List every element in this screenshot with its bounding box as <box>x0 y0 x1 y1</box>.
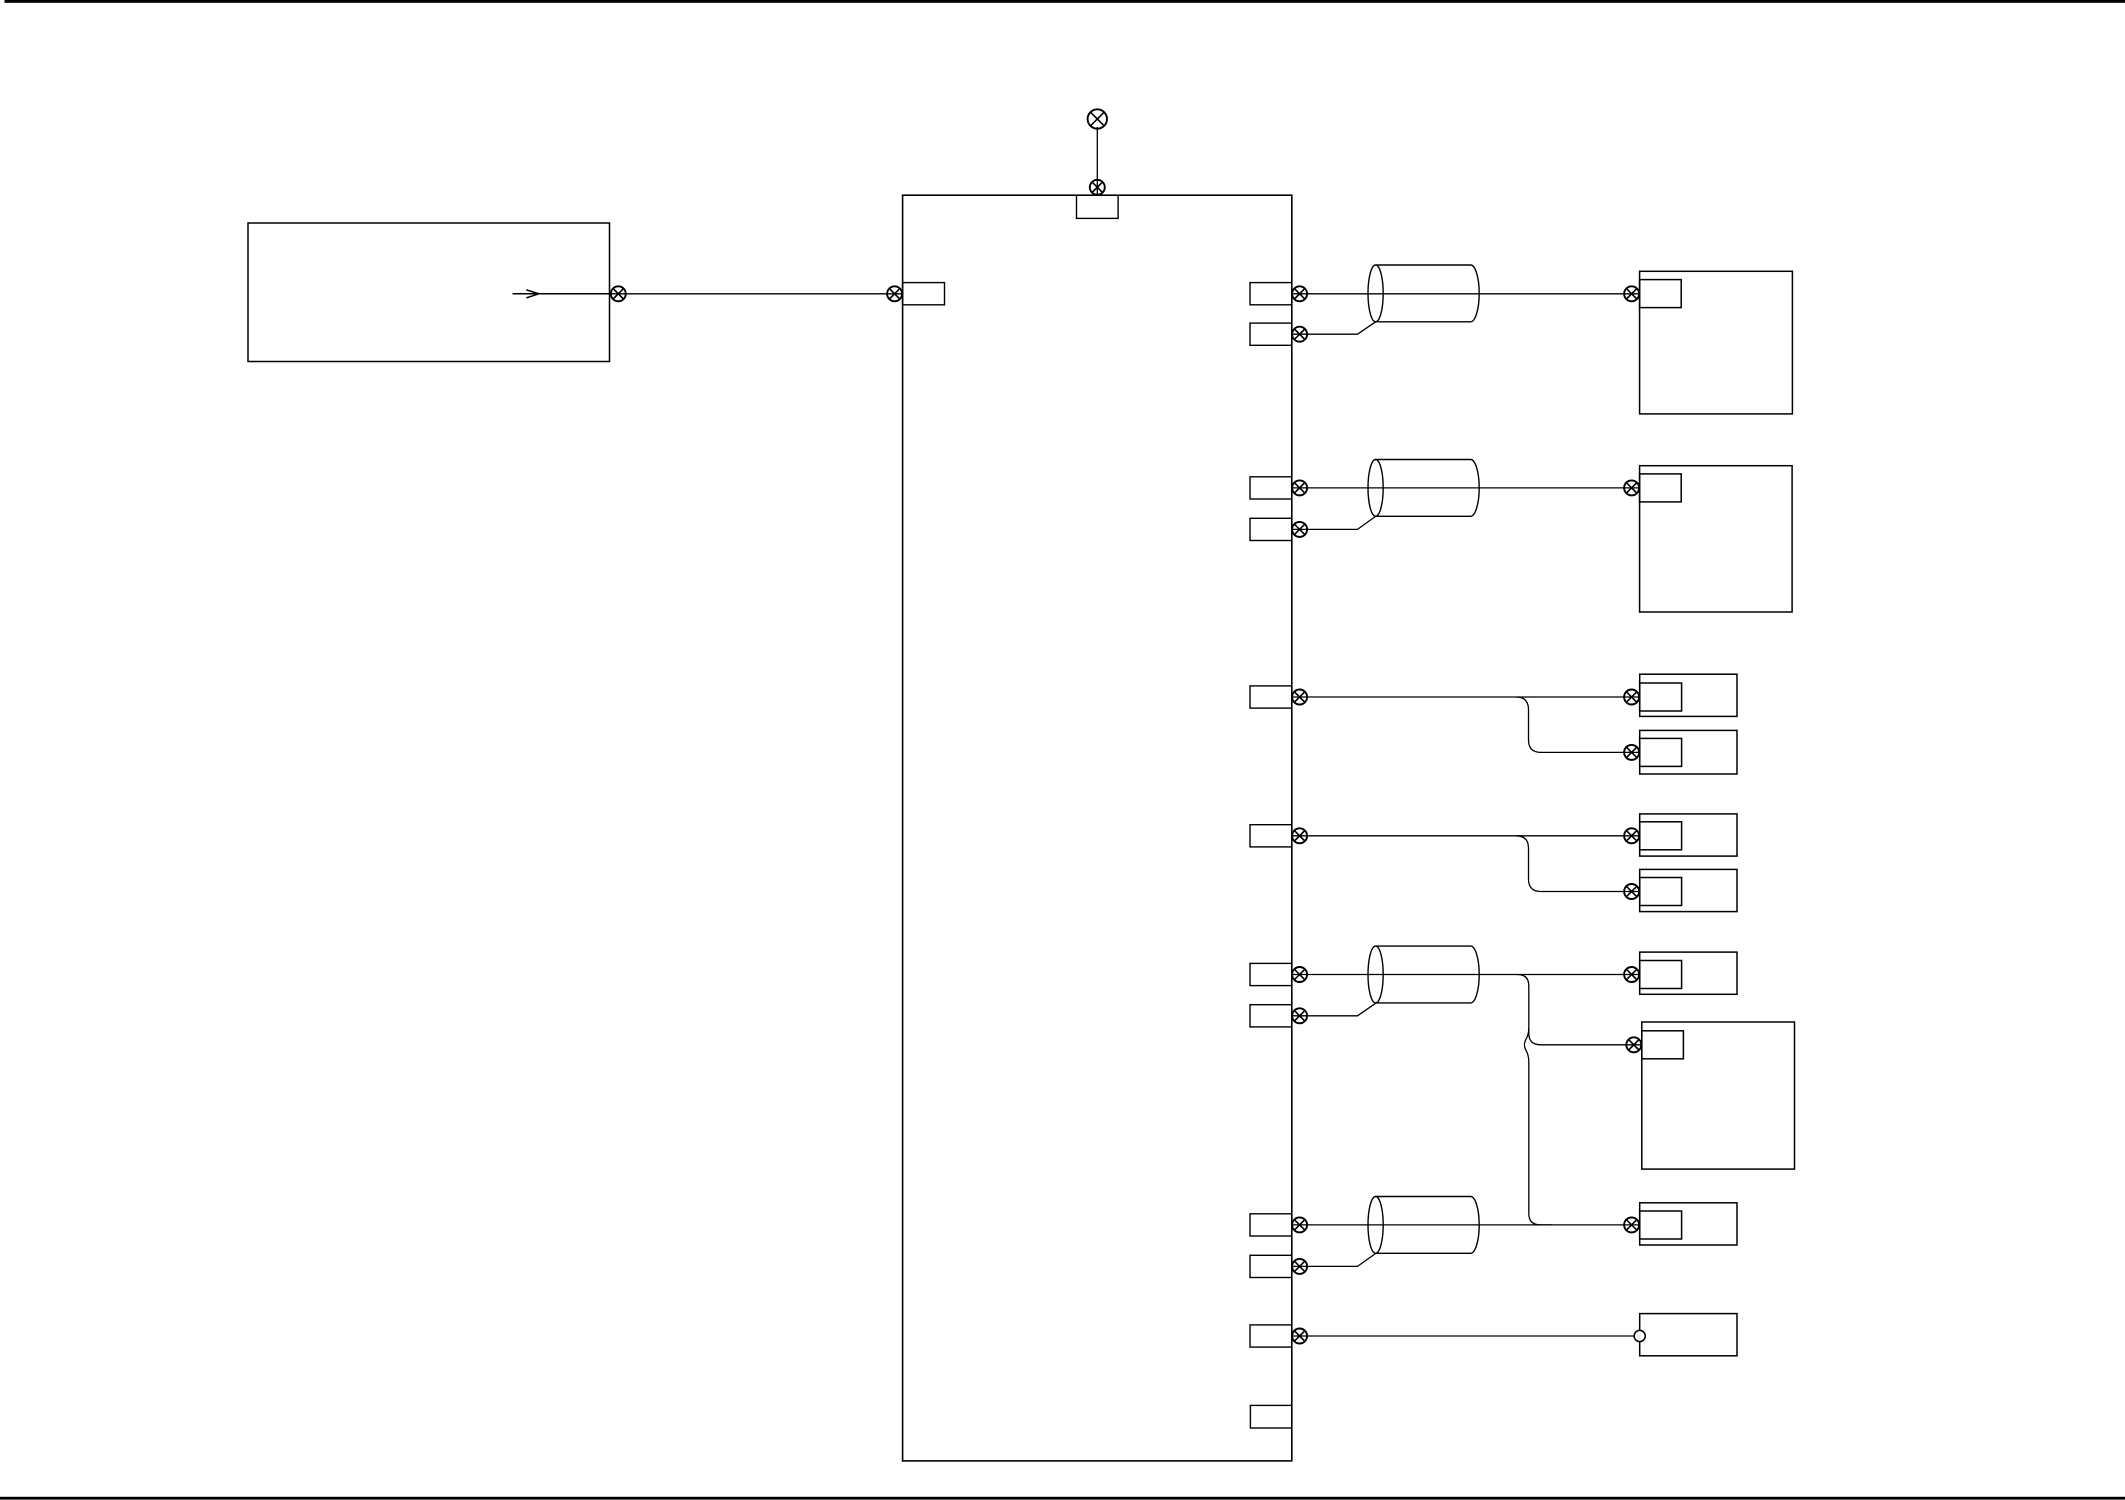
pin G2 top <box>1250 477 1292 499</box>
connector G5 pin bottom <box>1292 1008 1307 1023</box>
ferrite core G1 <box>1368 265 1479 322</box>
pin: main unit left input <box>903 283 945 305</box>
device box 3b <box>1640 730 1737 774</box>
wire G5 branch to device 5b <box>1517 975 1642 1045</box>
connector G1 pin top <box>1292 286 1307 301</box>
wire: source to main unit <box>610 293 903 295</box>
terminal circle device 7 <box>1634 1330 1645 1341</box>
connector G4 pin <box>1292 828 1307 843</box>
wire G5 twisted return <box>1292 1003 1376 1016</box>
pin: device 5b input <box>1642 1031 1684 1059</box>
pin G6 bottom <box>1250 1255 1292 1277</box>
connector device 4a <box>1624 828 1639 843</box>
pin G4 <box>1250 825 1292 847</box>
signal arrow line <box>513 293 610 295</box>
connector device 3a <box>1624 690 1639 705</box>
wire G4 branch <box>1516 836 1640 892</box>
connector G1 pin bottom <box>1292 327 1307 342</box>
wire G4 main <box>1292 835 1640 837</box>
wire G7 <box>1292 1335 1634 1337</box>
pin: device 2 input <box>1640 474 1682 502</box>
wire G3 main <box>1292 696 1640 698</box>
device box 1 <box>1640 271 1793 414</box>
pin: device 5a input <box>1640 961 1682 989</box>
connector device 6 <box>1624 1217 1639 1232</box>
connector G5 pin top <box>1292 967 1307 982</box>
pin G7 <box>1250 1325 1292 1347</box>
pin G1 top <box>1250 283 1292 305</box>
connector G2 pin bottom <box>1292 522 1307 537</box>
pin G5 top <box>1250 963 1292 985</box>
wire G2 twisted return <box>1292 516 1376 529</box>
top border bar <box>5 0 2125 3</box>
device box 4a <box>1640 814 1737 856</box>
device box 5a <box>1640 952 1737 994</box>
device box 4b <box>1640 869 1737 911</box>
box: external source (left) <box>248 223 610 362</box>
wire G6 main <box>1292 1224 1640 1226</box>
pin: device 6 input <box>1640 1211 1682 1239</box>
device box 2 <box>1640 466 1793 612</box>
signal arrowhead <box>526 290 539 298</box>
connector device 5a <box>1624 967 1639 982</box>
connector device 3b <box>1624 745 1639 760</box>
connector at main unit left input <box>887 286 902 301</box>
ferrite core G2 <box>1368 460 1479 517</box>
pin G5 bottom <box>1250 1005 1292 1027</box>
wire G5 branch down to group 6 <box>1524 1028 1552 1225</box>
device box 5b <box>1642 1022 1795 1169</box>
device box 3a <box>1640 674 1737 716</box>
pin G3 <box>1250 686 1292 708</box>
connector device 1 <box>1624 286 1639 301</box>
connector at source output <box>611 286 626 301</box>
main unit chassis <box>903 195 1292 1461</box>
pin: unused bottom <box>1250 1405 1291 1428</box>
connector G3 pin <box>1292 690 1307 705</box>
antenna connector (top circle) <box>1088 109 1107 128</box>
wire G1 main <box>1292 293 1640 295</box>
ferrite core G5 <box>1368 946 1479 1003</box>
connector G6 pin bottom <box>1292 1259 1307 1274</box>
pin G2 bottom <box>1250 518 1292 540</box>
device box 7 <box>1640 1314 1737 1356</box>
pin: device 4a input <box>1640 822 1682 850</box>
connector G6 pin top <box>1292 1217 1307 1232</box>
wire G1 twisted return <box>1292 322 1376 334</box>
wire G2 main <box>1292 487 1640 489</box>
pin: device 3b input <box>1640 738 1682 766</box>
pin: device 3a input <box>1640 683 1682 711</box>
connector on top edge <box>1090 180 1105 195</box>
wire G3 branch <box>1516 697 1640 752</box>
pin: antenna terminal on top edge <box>1077 195 1119 218</box>
pin G6 top <box>1250 1214 1292 1236</box>
device box 6 <box>1640 1203 1737 1245</box>
wire: antenna lead <box>1096 127 1098 195</box>
connector device 5b <box>1626 1037 1641 1052</box>
connector device 4b <box>1624 884 1639 899</box>
pin G1 bottom <box>1250 323 1292 345</box>
ferrite core G6 <box>1368 1197 1479 1254</box>
pin: device 1 input <box>1640 280 1682 308</box>
bottom border bar <box>0 1497 2125 1500</box>
pin: device 4b input <box>1640 878 1682 906</box>
connector device 2 <box>1624 480 1639 495</box>
wire G6 twisted return <box>1292 1254 1376 1267</box>
connector G7 pin <box>1292 1329 1307 1344</box>
connector G2 pin top <box>1292 480 1307 495</box>
wire G5 main <box>1292 974 1640 976</box>
